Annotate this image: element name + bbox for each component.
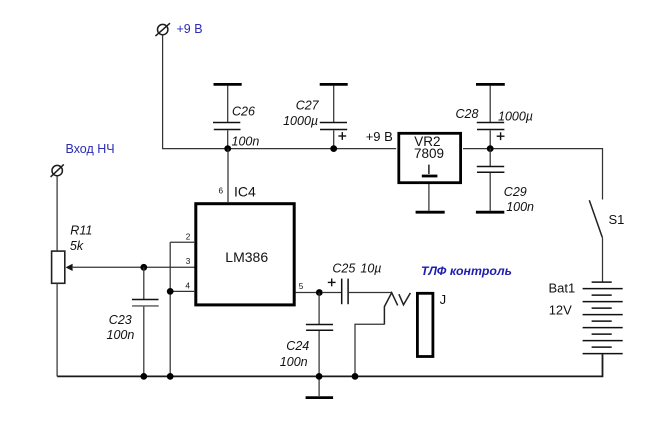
- wire +9V rail right of VR2: [463, 148, 603, 150]
- pin 6 wire: [227, 149, 229, 203]
- jack J break contact: [384, 293, 410, 325]
- node dot C27 on rail: [330, 145, 337, 152]
- capacitor C26: [213, 86, 241, 149]
- jack J body: [417, 293, 433, 356]
- svg-text:12V: 12V: [549, 303, 572, 318]
- terminal Вход НЧ: [51, 164, 64, 177]
- op-amp IC4 LM386: [196, 204, 294, 305]
- svg-text:Вход НЧ: Вход НЧ: [66, 142, 115, 156]
- node dot jack on bus: [352, 373, 359, 380]
- pin 5 wire: [296, 292, 320, 294]
- svg-text:5: 5: [299, 282, 304, 291]
- wire from +9V terminal down to rail: [162, 34, 164, 148]
- wire R11 bottom to bus: [56, 284, 58, 377]
- capacitor C23: [132, 267, 159, 376]
- wire wiper to pin 3: [72, 266, 196, 268]
- ground bar above C27: [320, 83, 348, 86]
- svg-text:1000µ: 1000µ: [283, 114, 318, 128]
- node dot pin5 / C24 / C25: [316, 289, 323, 296]
- ground bar above C26: [214, 83, 242, 86]
- svg-text:100n: 100n: [280, 355, 308, 369]
- capacitor C29: [477, 149, 505, 211]
- svg-text:C23: C23: [109, 313, 132, 327]
- svg-text:C26: C26: [232, 105, 255, 119]
- node dot pin4: [167, 288, 174, 295]
- svg-text:C24: C24: [286, 339, 309, 353]
- ground bar under VR2: [416, 211, 445, 214]
- svg-text:100n: 100n: [107, 328, 135, 342]
- svg-text:7809: 7809: [414, 146, 444, 161]
- potentiometer R11: [52, 251, 73, 283]
- switch S1: [589, 200, 602, 282]
- svg-text:+9 В: +9 В: [366, 129, 393, 144]
- svg-text:IC4: IC4: [234, 183, 256, 199]
- wire battery bottom to bus corner: [57, 354, 602, 376]
- svg-text:C27: C27: [296, 98, 320, 112]
- node dot C28/C29 on rail: [487, 145, 494, 152]
- capacitor C25: [322, 279, 392, 305]
- svg-text:6: 6: [219, 186, 224, 195]
- capacitor C24: [306, 293, 333, 397]
- battery Bat1: [583, 282, 623, 354]
- wire +9V rail left of VR2: [162, 148, 396, 150]
- node dot C26 / pin6 on rail: [224, 145, 231, 152]
- svg-text:3: 3: [186, 257, 191, 266]
- node dot wiper / C23: [140, 264, 147, 271]
- svg-text:ТЛФ контроль: ТЛФ контроль: [421, 264, 512, 278]
- terminal +9V input: [155, 23, 170, 36]
- svg-text:100n: 100n: [506, 200, 534, 214]
- node dot pin2-4 vertical on bus: [167, 373, 174, 380]
- voltage regulator VR2 7809: [399, 133, 461, 182]
- svg-text:S1: S1: [609, 212, 625, 227]
- svg-text:2: 2: [186, 232, 191, 241]
- svg-text:R11: R11: [70, 223, 92, 237]
- svg-text:4: 4: [185, 281, 190, 290]
- svg-text:1000µ: 1000µ: [498, 110, 533, 124]
- capacitor C27: [320, 86, 347, 149]
- svg-text:LM386: LM386: [225, 249, 268, 265]
- svg-text:+9 В: +9 В: [177, 22, 203, 36]
- svg-text:10µ: 10µ: [360, 261, 381, 275]
- svg-text:C29: C29: [504, 185, 527, 199]
- capacitor C28: [477, 86, 505, 149]
- svg-text:C25: C25: [332, 261, 355, 275]
- pin 4 wire: [170, 290, 195, 292]
- wire rail corner down to switch: [602, 148, 604, 200]
- svg-text:5k: 5k: [70, 239, 84, 253]
- wire VR2 ground pin: [428, 184, 430, 211]
- svg-text:100n: 100n: [232, 135, 260, 149]
- ground bar under C24: [306, 396, 334, 399]
- ground bar above C28: [476, 83, 505, 86]
- wire jack contact down to bus: [355, 324, 384, 376]
- wire pin2 to pin4 to bus: [169, 242, 171, 376]
- node dot C24 on bus: [316, 373, 323, 380]
- pin 2 wire: [170, 241, 195, 243]
- wire terminal down to R11: [56, 176, 58, 251]
- svg-text:C28: C28: [456, 107, 479, 121]
- svg-text:J: J: [440, 292, 447, 307]
- node dot C23 on bus: [140, 373, 147, 380]
- ground bar under C29: [476, 211, 504, 214]
- svg-text:Bat1: Bat1: [549, 280, 576, 295]
